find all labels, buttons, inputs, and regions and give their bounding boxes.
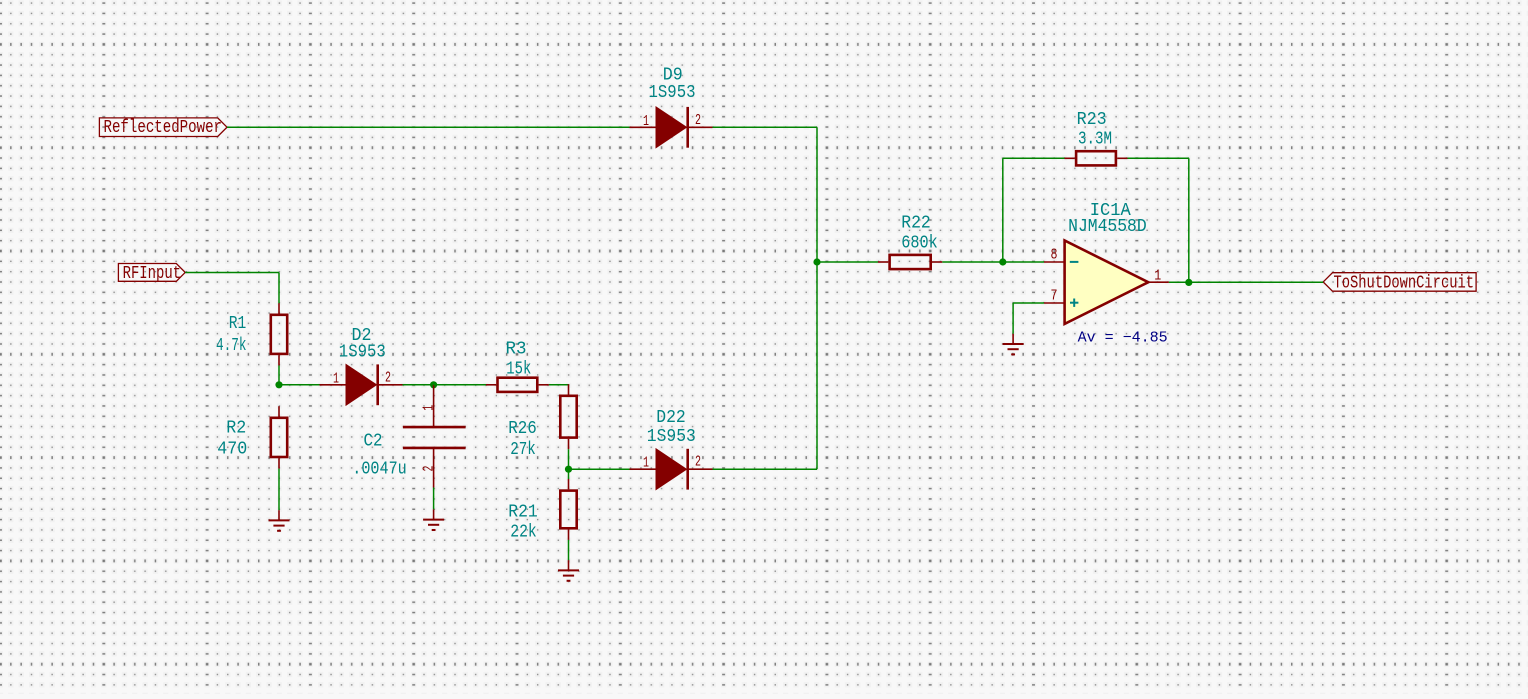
wire node D to opamp minus pin [1003,261,1044,263]
node bus junction (x817) [813,258,820,265]
wire D2 cathode to node B [403,384,434,386]
svg-text:4.7k: 4.7k [216,336,247,356]
svg-text:R26: R26 [508,419,537,439]
resistor R23 body [1065,151,1128,165]
svg-text:RFInput: RFInput [123,264,182,284]
svg-text:3.3M: 3.3M [1078,129,1112,149]
svg-text:R1: R1 [229,314,247,334]
svg-text:2: 2 [385,369,391,386]
diode D22 body [630,449,713,490]
wire R21 bottom to ground [568,540,570,560]
ground GND under R2 [269,510,290,531]
svg-text:1S953: 1S953 [339,343,386,363]
wire opamp plus pin wire [1013,302,1044,304]
svg-text:470: 470 [217,440,247,460]
svg-text:22k: 22k [510,523,537,543]
capacitor C2 body [403,385,466,488]
wire R1 bottom to node A [278,366,280,385]
svg-text:2: 2 [695,454,701,471]
diode D9 body [630,107,713,148]
op-amp U1 (IC1A) body [1044,241,1169,324]
wire vertical bus x817 [816,127,818,469]
svg-text:ToShutDownCircuit: ToShutDownCircuit [1334,273,1475,293]
node A (R1/R2/D2) [275,381,282,388]
wire node A to D2 anode [279,384,320,386]
wire D9 cathode to bus [713,126,818,128]
wire plus input down [1012,303,1014,334]
svg-text:1: 1 [643,455,649,472]
svg-text:680k: 680k [901,234,938,254]
svg-text:2: 2 [695,112,701,129]
svg-text:R3: R3 [506,339,527,359]
wire D22 cathode to bus [713,468,818,470]
svg-text:15k: 15k [506,360,531,380]
node D (R22/R23/opamp -) [999,258,1006,265]
svg-text:1S953: 1S953 [647,427,696,447]
wire feedback row left [1003,157,1065,159]
svg-text:Av = −4.85: Av = −4.85 [1078,330,1168,347]
node E (output/feedback) [1185,279,1192,286]
svg-text:R23: R23 [1077,110,1107,130]
wire node B to R3 [434,384,486,386]
svg-text:R21: R21 [508,502,538,522]
op-amp minus pin name [1070,261,1079,263]
svg-text:7: 7 [1051,288,1058,305]
resistor R26 body [560,384,576,449]
hierarchical label RFInput shape [118,264,185,282]
resistor R2 body [271,406,287,468]
svg-text:1: 1 [421,405,438,411]
resistor R3 body [486,378,549,392]
diode D2 body [320,364,403,405]
svg-text:1S953: 1S953 [649,83,696,103]
svg-text:1: 1 [333,370,339,387]
resistor R22 body [878,255,942,269]
resistor R1 body [271,303,287,365]
wire feedback down to output node [1188,158,1190,282]
wire RFInput to R1 column [185,272,279,274]
wire opamp output to node E [1169,281,1189,283]
resistor R21 body [560,479,576,540]
svg-text:2: 2 [421,466,438,472]
svg-text:1: 1 [643,113,649,130]
svg-text:NJM4558D: NJM4558D [1068,217,1147,237]
svg-text:.0047u: .0047u [352,460,407,480]
svg-text:D22: D22 [656,408,686,428]
svg-text:27k: 27k [510,440,536,460]
svg-text:1: 1 [1154,267,1161,284]
svg-text:C2: C2 [364,431,383,451]
wire bus to R22 [817,261,878,263]
node B (D2/C2/R3) [430,381,437,388]
svg-text:R2: R2 [226,418,246,438]
wire R26 bottom to node C [568,449,570,469]
hierarchical label ReflectedPower shape [99,118,227,137]
svg-text:R22: R22 [901,214,931,234]
op-amp plus pin name [1070,299,1078,307]
wire R1 column down [278,273,280,304]
svg-text:ReflectedPower: ReflectedPower [104,118,223,138]
wire C2 bottom to ground [433,488,435,510]
wire node C to D22 anode [569,468,630,470]
wire R26 column corner [568,383,570,386]
node C (R26/R21/D22) [565,466,572,473]
wire node E to ToShutDownCircuit [1189,281,1323,283]
ground GND under C2 [423,509,444,530]
wire R2 bottom to ground [278,469,280,511]
wire R3 to R26 column [549,384,569,386]
ground GND at opamp + input [1003,334,1024,355]
wire R22 to node D [942,261,1003,263]
hierarchical label ToShutDownCircuit shape [1323,273,1476,292]
wire node D up to feedback row [1002,158,1004,262]
wire node C to R21 [568,469,570,479]
wire feedback row right [1128,157,1189,159]
wire ReflectedPower to D9 anode [227,126,630,128]
ground GND under R21 [558,560,579,581]
svg-text:8: 8 [1051,246,1058,263]
